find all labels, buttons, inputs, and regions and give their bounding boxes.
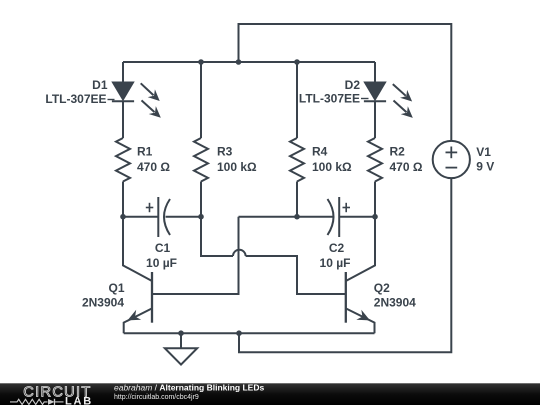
- svg-text:http://circuitlab.com/cbc4jr9: http://circuitlab.com/cbc4jr9: [114, 394, 199, 401]
- svg-text:100 kΩ: 100 kΩ: [312, 160, 352, 174]
- svg-text:2N3904: 2N3904: [374, 296, 416, 310]
- svg-text:10 µF: 10 µF: [146, 256, 177, 270]
- svg-text:LAB: LAB: [65, 395, 93, 405]
- svg-text:9 V: 9 V: [476, 160, 494, 174]
- svg-text:Q2: Q2: [374, 281, 390, 295]
- svg-text:470 Ω: 470 Ω: [137, 160, 170, 174]
- svg-text:100 kΩ: 100 kΩ: [217, 160, 257, 174]
- svg-text:R3: R3: [217, 145, 233, 159]
- svg-text:C1: C1: [155, 241, 171, 255]
- svg-text:R2: R2: [390, 145, 406, 159]
- svg-text:C2: C2: [329, 241, 345, 255]
- svg-text:R1: R1: [137, 145, 153, 159]
- svg-text:R4: R4: [312, 145, 328, 159]
- svg-text:LTL-307EE: LTL-307EE: [299, 92, 360, 106]
- svg-text:2N3904: 2N3904: [82, 296, 124, 310]
- svg-text:470 Ω: 470 Ω: [390, 160, 423, 174]
- svg-text:V1: V1: [476, 145, 491, 159]
- svg-text:10 µF: 10 µF: [320, 256, 351, 270]
- svg-text:LTL-307EE: LTL-307EE: [45, 92, 106, 106]
- svg-text:eabraham / Alternating Blinkin: eabraham / Alternating Blinking LEDs: [114, 382, 264, 392]
- svg-text:D1: D1: [92, 78, 108, 92]
- svg-text:Q1: Q1: [108, 281, 124, 295]
- svg-text:D2: D2: [345, 78, 361, 92]
